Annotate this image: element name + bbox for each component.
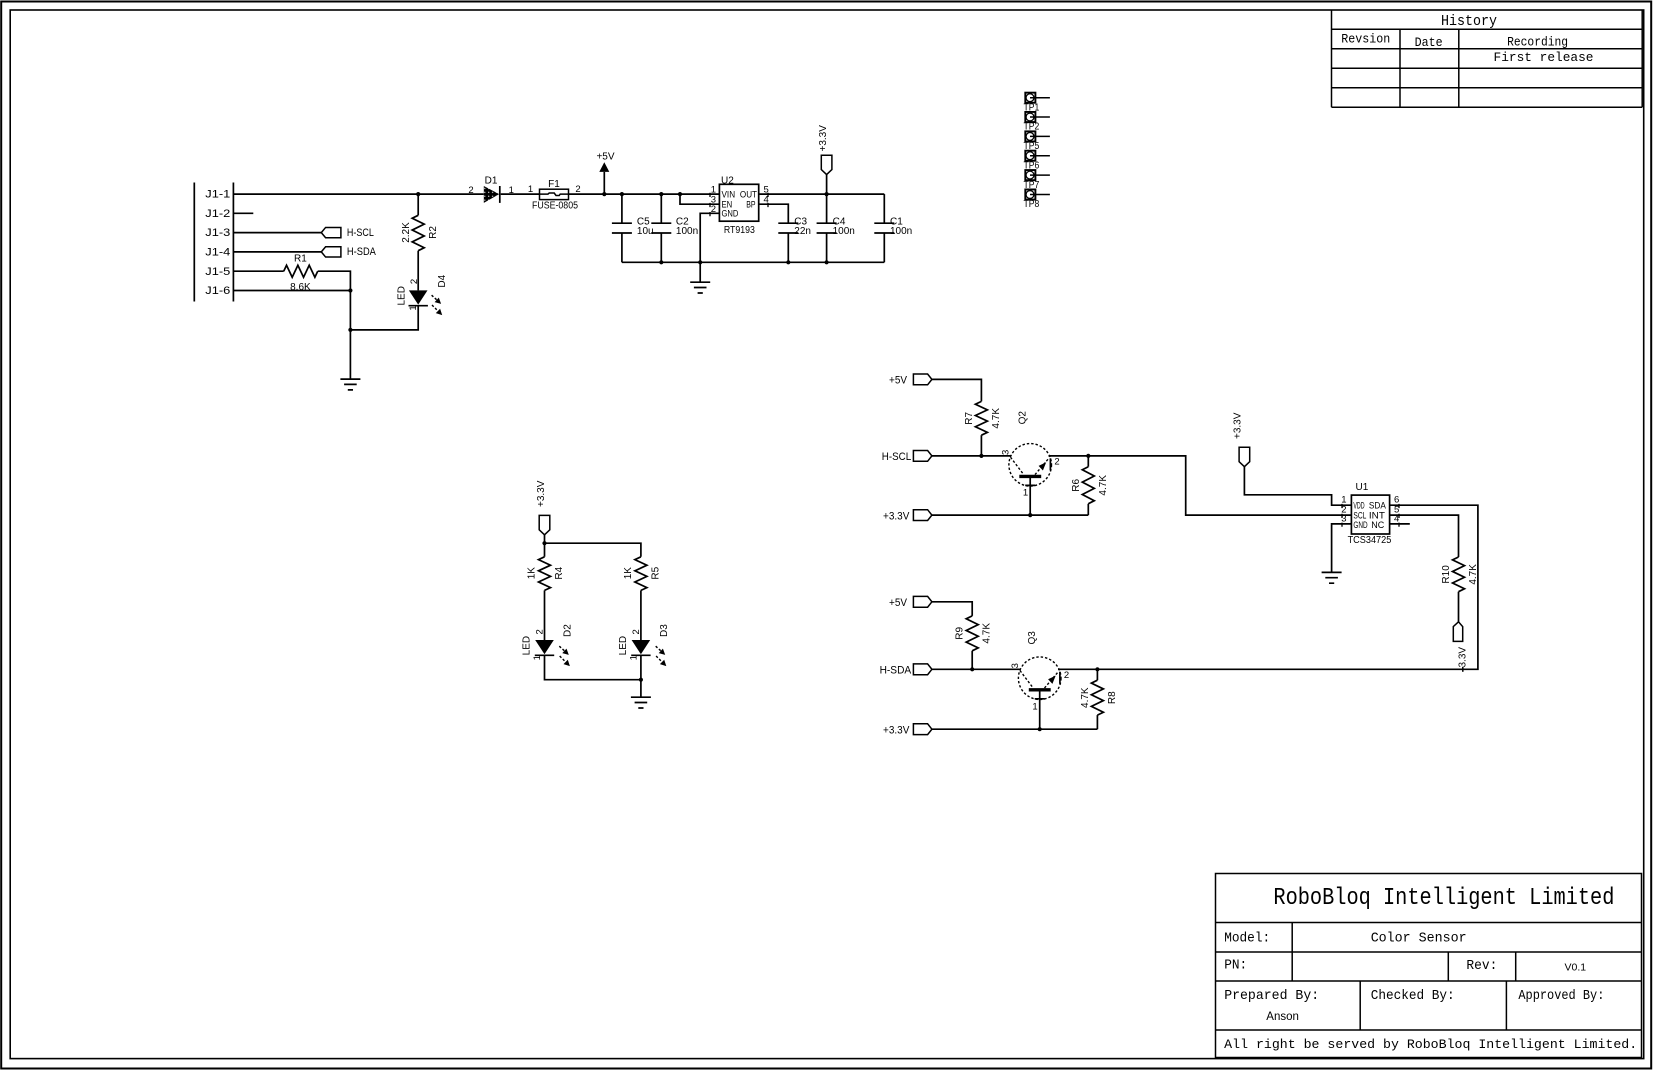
svg-text:1: 1 <box>628 655 639 660</box>
test point TP6 <box>1024 151 1050 172</box>
svg-text:+3.3V: +3.3V <box>1232 412 1243 439</box>
svg-text:GND: GND <box>1353 520 1368 530</box>
wire C5 to U2 VIN <box>622 193 720 195</box>
svg-text:PN:: PN: <box>1224 957 1247 973</box>
wire H-SCL to Q2 base <box>932 455 1011 457</box>
svg-text:SDA: SDA <box>1369 501 1386 511</box>
svg-text:3.3V: 3.3V <box>1457 647 1468 668</box>
svg-text:R8: R8 <box>1107 691 1118 704</box>
svg-text:D4: D4 <box>437 274 448 287</box>
IC U1 TCS34725 <box>1351 495 1389 534</box>
transistor Q2 <box>1009 444 1052 516</box>
svg-text:R2: R2 <box>428 226 439 239</box>
net flag 3.3V (pullup) <box>1453 622 1462 642</box>
svg-text:R7: R7 <box>964 411 975 424</box>
wire U1 NC stub <box>1390 523 1410 525</box>
test point TP7 <box>1024 170 1050 191</box>
svg-text:R6: R6 <box>1071 478 1082 491</box>
svg-text:H-SCL: H-SCL <box>347 227 374 239</box>
resistor R2 <box>412 215 424 250</box>
svg-text:VDD: VDD <box>1353 501 1364 511</box>
connector J1 right bar <box>232 183 234 302</box>
junction R7 bottom <box>979 454 983 458</box>
svg-text:VIN: VIN <box>722 190 736 200</box>
svg-text:4.7K: 4.7K <box>1080 687 1091 708</box>
ground (J1 return) <box>340 379 360 390</box>
junction C2 top <box>659 192 663 196</box>
pin tick 3.3V net <box>1462 667 1464 672</box>
test point TP8 <box>1024 189 1050 210</box>
wire J1-5 to R1 <box>233 270 283 272</box>
wire flag to OUT rail <box>826 175 828 195</box>
resistor R9 <box>966 616 978 651</box>
ground (U1) <box>1322 572 1342 583</box>
wire J1-6 <box>233 290 350 292</box>
svg-text:3: 3 <box>1010 663 1021 668</box>
svg-text:4.7K: 4.7K <box>1098 475 1109 496</box>
svg-text:First release: First release <box>1494 50 1594 65</box>
test point TP2 <box>1024 112 1050 133</box>
diode D1 <box>484 186 499 203</box>
resistor R8 <box>1096 669 1098 680</box>
svg-text:History: History <box>1441 14 1497 30</box>
resistor R4 <box>539 557 551 591</box>
svg-text:J1-3: J1-3 <box>205 227 230 239</box>
svg-text:Revsion: Revsion <box>1341 32 1390 47</box>
svg-text:4.7K: 4.7K <box>991 408 1002 429</box>
svg-text:All right be served by RoboBlo: All right be served by RoboBloq Intellig… <box>1224 1037 1637 1052</box>
svg-text:2: 2 <box>409 279 420 284</box>
wire +3.3V to R6 bottom <box>932 514 1088 516</box>
resistor R1 <box>284 265 318 277</box>
svg-text:10u: 10u <box>637 226 654 237</box>
wire R4 to D2 <box>544 590 546 640</box>
svg-text:FUSE-0805: FUSE-0805 <box>532 201 578 212</box>
title block grid <box>1216 874 1642 1058</box>
svg-text:1K: 1K <box>623 567 634 580</box>
net flag +5V (Q2) <box>913 374 932 385</box>
wire flag to U1 VDD <box>1244 467 1351 506</box>
capacitor C4 <box>826 194 828 223</box>
junction R9 bottom <box>970 667 974 671</box>
history table grid <box>1332 10 1643 107</box>
svg-text:Rev:: Rev: <box>1466 958 1497 974</box>
capacitor C1 <box>883 194 885 223</box>
svg-text:OUT: OUT <box>740 190 758 200</box>
svg-text:+5V: +5V <box>889 375 908 387</box>
svg-text:100n: 100n <box>833 226 855 237</box>
svg-text:J1-5: J1-5 <box>205 266 230 278</box>
resistor R7 <box>975 401 987 435</box>
fuse F1 <box>540 189 569 199</box>
svg-text:100n: 100n <box>890 226 912 237</box>
wire Q2 collector to U1 SCL <box>1049 456 1352 515</box>
svg-text:RT9193: RT9193 <box>724 225 755 236</box>
wire Q3 collector / SDA net <box>1058 505 1478 669</box>
wire J1-2 stub <box>233 212 253 214</box>
net flag H-SDA <box>321 247 341 257</box>
wire flag to R4/R5 <box>545 535 641 557</box>
svg-text:J1-6: J1-6 <box>205 285 230 297</box>
wire R9 to H-SDA <box>971 651 973 670</box>
svg-text:Anson: Anson <box>1266 1011 1299 1023</box>
wire LED return rail <box>545 655 641 697</box>
wire R2 to D4 <box>417 251 419 291</box>
svg-text:RoboBloq Intelligent Limited: RoboBloq Intelligent Limited <box>1273 885 1614 912</box>
svg-text:+3.3V: +3.3V <box>883 510 910 522</box>
svg-text:+3.3V: +3.3V <box>536 480 547 507</box>
test point TP5 <box>1024 131 1050 152</box>
junction C4 rail <box>825 260 829 264</box>
LED D2 <box>535 640 554 654</box>
junction R6 top <box>1086 454 1090 458</box>
power symbol +5V <box>599 162 609 172</box>
wire R2 top <box>417 194 419 215</box>
svg-text:LED: LED <box>397 286 408 305</box>
svg-text:100n: 100n <box>676 226 698 237</box>
svg-text:LED: LED <box>522 636 533 655</box>
svg-text:Approved By:: Approved By: <box>1518 988 1604 1004</box>
wire +3.3V to R8 bottom <box>932 728 1098 730</box>
wire F1 to C5 <box>569 193 622 195</box>
svg-text:4.7K: 4.7K <box>982 623 993 644</box>
svg-text:+3.3V: +3.3V <box>883 724 910 736</box>
capacitor C2 <box>660 194 662 223</box>
junction GND rail <box>698 260 702 264</box>
svg-text:U1: U1 <box>1356 482 1369 493</box>
svg-text:Color Sensor: Color Sensor <box>1371 931 1467 947</box>
svg-text:1: 1 <box>408 305 419 310</box>
ground (regulator) <box>690 282 710 293</box>
resistor R5 <box>635 557 647 591</box>
LED D3 <box>632 640 651 654</box>
svg-text:2: 2 <box>1064 670 1069 681</box>
svg-text:Q2: Q2 <box>1017 411 1028 425</box>
svg-text:1: 1 <box>528 184 533 195</box>
svg-text:TP8: TP8 <box>1024 199 1040 210</box>
svg-text:22n: 22n <box>794 226 811 237</box>
svg-text:Date: Date <box>1415 35 1443 50</box>
svg-text:BP: BP <box>746 200 755 210</box>
wire U1 INT to R10 <box>1390 515 1459 557</box>
svg-text:J1-2: J1-2 <box>205 208 230 220</box>
svg-text:GND: GND <box>722 209 739 219</box>
svg-text:V0.1: V0.1 <box>1564 962 1586 974</box>
wire J1-3 to H-SCL <box>233 232 321 234</box>
net flag H-SDA (Q3) <box>913 664 932 675</box>
svg-text:2: 2 <box>1054 457 1059 468</box>
net flag H-SCL (Q2) <box>913 451 932 462</box>
svg-text:U2: U2 <box>721 175 734 186</box>
wire EN <box>680 194 719 204</box>
svg-text:J1-4: J1-4 <box>205 247 230 259</box>
svg-text:+5V: +5V <box>596 152 614 163</box>
svg-text:2: 2 <box>631 629 642 634</box>
wire U1 GND <box>1332 524 1352 573</box>
junction LED return <box>639 678 643 682</box>
svg-text:D2: D2 <box>563 624 574 637</box>
pin end ticks U1 <box>1342 504 1399 527</box>
svg-text:4.7K: 4.7K <box>1468 564 1479 585</box>
wire J1-1 main <box>233 193 483 195</box>
wire +5V to R9 <box>932 602 972 616</box>
svg-text:NC: NC <box>1371 520 1384 530</box>
svg-text:J1-1: J1-1 <box>205 189 230 201</box>
net flag +5V (Q3) <box>913 596 932 607</box>
svg-text:2: 2 <box>535 629 546 634</box>
svg-text:H-SCL: H-SCL <box>882 451 911 463</box>
net flag +3.3V (Q2) <box>913 510 932 521</box>
svg-text:3: 3 <box>1001 450 1012 455</box>
svg-text:H-SDA: H-SDA <box>347 246 377 258</box>
wire down to ground tee <box>349 291 351 380</box>
svg-text:R1: R1 <box>294 254 307 265</box>
junction tee <box>348 328 352 332</box>
junction LED feed <box>542 541 546 545</box>
ground (LEDs) <box>631 697 651 708</box>
LED D4 <box>409 290 428 304</box>
power flag +3.3V (LEDs) <box>539 515 550 534</box>
wire J1-4 to H-SDA <box>233 251 321 253</box>
connector J1 left bar <box>193 183 195 302</box>
pin end ticks U2 <box>710 193 768 216</box>
svg-text:Checked By:: Checked By: <box>1371 988 1455 1004</box>
svg-text:R10: R10 <box>1441 565 1452 584</box>
capacitor C3 <box>778 223 798 233</box>
svg-text:LED: LED <box>618 636 629 655</box>
junction Q3 emitter <box>1038 727 1042 731</box>
svg-text:Recording: Recording <box>1507 34 1568 49</box>
wire R5 to D3 <box>640 590 642 640</box>
resistor R6 <box>1087 456 1089 467</box>
junction C2 rail <box>659 260 663 264</box>
svg-text:R5: R5 <box>650 566 661 579</box>
test point TP1 <box>1024 93 1050 114</box>
junction EN tap <box>678 192 682 196</box>
svg-text:1: 1 <box>532 655 543 660</box>
svg-text:Prepared By:: Prepared By: <box>1224 988 1319 1004</box>
junction R2 tap <box>416 192 420 196</box>
capacitor C5 <box>621 194 623 223</box>
svg-text:D1: D1 <box>485 176 498 187</box>
svg-text:R4: R4 <box>554 566 565 579</box>
junction R8 top <box>1095 667 1099 671</box>
junction C4 top <box>825 192 829 196</box>
svg-text:1K: 1K <box>527 567 538 580</box>
svg-text:F1: F1 <box>548 179 560 190</box>
wire H-SDA to Q3 base <box>932 668 1020 670</box>
wire D1 to F1 <box>501 193 540 195</box>
svg-text:H-SDA: H-SDA <box>880 665 912 677</box>
svg-text:+3.3V: +3.3V <box>818 125 829 152</box>
wire U2 OUT <box>759 193 885 195</box>
wire tee to D4 cathode <box>350 306 418 330</box>
power flag +3.3V (U1) <box>1239 447 1250 466</box>
svg-text:Q3: Q3 <box>1027 631 1038 645</box>
junction J1-6 <box>348 288 352 292</box>
transistor Q3 <box>1018 657 1061 729</box>
IC U2 RT9193 <box>719 184 758 221</box>
wire ground rail <box>622 261 884 263</box>
resistor R10 <box>1453 557 1465 592</box>
junction C5 <box>620 192 624 196</box>
junction Q2 emitter <box>1028 513 1032 517</box>
net flag H-SCL <box>321 227 341 237</box>
svg-text:D3: D3 <box>659 624 670 637</box>
junction C3 rail <box>786 260 790 264</box>
wire R10 to 3.3V flag <box>1458 592 1460 622</box>
svg-text:Model:: Model: <box>1224 931 1270 947</box>
svg-text:R9: R9 <box>955 626 966 639</box>
net flag +3.3V (Q3) <box>913 724 932 735</box>
svg-text:TCS34725: TCS34725 <box>1348 535 1392 546</box>
wire U2 BP to C3 <box>759 204 789 223</box>
svg-text:2.2K: 2.2K <box>401 222 412 243</box>
wire R7 to H-SCL <box>980 435 982 456</box>
wire R1 to vertical <box>318 271 351 290</box>
svg-text:1: 1 <box>1023 488 1028 499</box>
svg-text:+5V: +5V <box>889 597 908 609</box>
power flag +3.3V (regulator out) <box>821 155 832 174</box>
wire U2 GND <box>700 213 719 282</box>
wire +5V to R7 <box>932 379 982 401</box>
junction +5V <box>602 192 606 196</box>
svg-text:1: 1 <box>1032 701 1037 712</box>
svg-text:2: 2 <box>468 185 473 196</box>
